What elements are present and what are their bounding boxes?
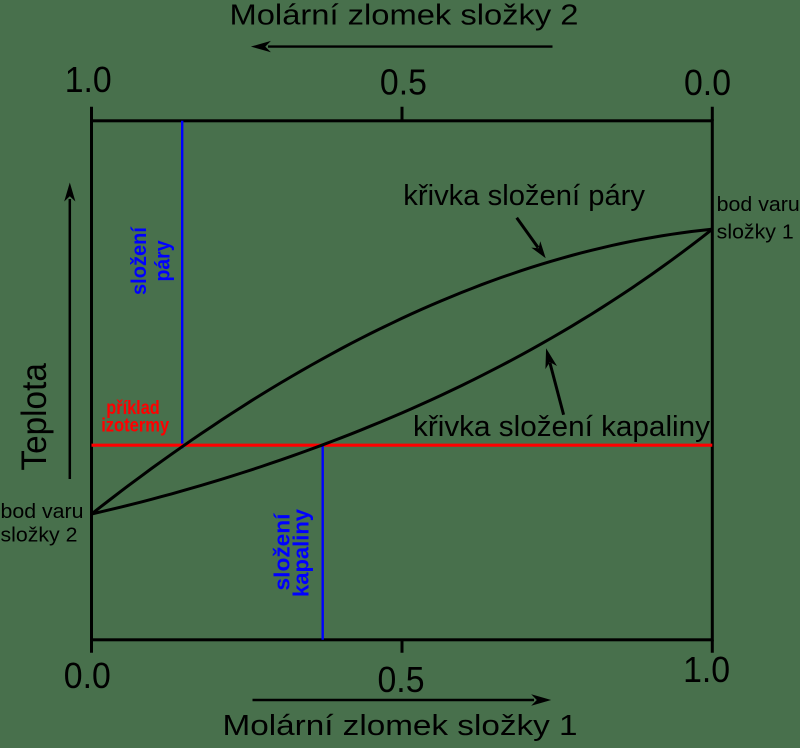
top axis arrow (left-pointing): [268, 45, 553, 47]
svg-text:izotermy: izotermy: [101, 416, 169, 437]
vapor composition curve (upper): [92, 229, 713, 514]
red isotherm line: [92, 444, 713, 447]
plot box frame: [92, 121, 713, 640]
svg-text:bod varu: bod varu: [717, 193, 800, 216]
top ticks: [92, 107, 713, 121]
svg-text:kapaliny: kapaliny: [289, 508, 314, 597]
bottom ticks: [92, 640, 713, 653]
svg-text:složky 2: složky 2: [1, 523, 78, 546]
svg-text:složky 1: složky 1: [717, 220, 794, 243]
svg-text:0.0: 0.0: [64, 655, 111, 696]
svg-text:křivka složení kapaliny: křivka složení kapaliny: [413, 411, 710, 443]
svg-text:Molární zlomek složky 1: Molární zlomek složky 1: [223, 710, 578, 742]
Teplota axis arrow (up): [69, 199, 72, 479]
bottom axis arrow (right-pointing): [253, 699, 535, 701]
svg-text:1.0: 1.0: [683, 649, 730, 690]
svg-text:1.0: 1.0: [65, 59, 112, 100]
svg-text:Teplota: Teplota: [15, 363, 54, 471]
svg-text:Molární zlomek složky 2: Molární zlomek složky 2: [230, 0, 579, 32]
svg-text:složení: složení: [128, 226, 151, 295]
blue composition line (liquid): [322, 444, 324, 640]
liquid composition curve (lower): [92, 229, 713, 514]
svg-text:křivka složení páry: křivka složení páry: [403, 180, 645, 212]
svg-text:páry: páry: [152, 240, 175, 281]
svg-text:0.5: 0.5: [380, 62, 427, 103]
kapaliny annotation arrow: [550, 363, 564, 415]
blue composition line (vapor): [181, 121, 183, 449]
svg-text:0.0: 0.0: [684, 62, 731, 103]
svg-text:0.5: 0.5: [378, 659, 425, 700]
svg-text:bod varu: bod varu: [1, 500, 84, 523]
pary annotation arrow: [517, 218, 538, 248]
